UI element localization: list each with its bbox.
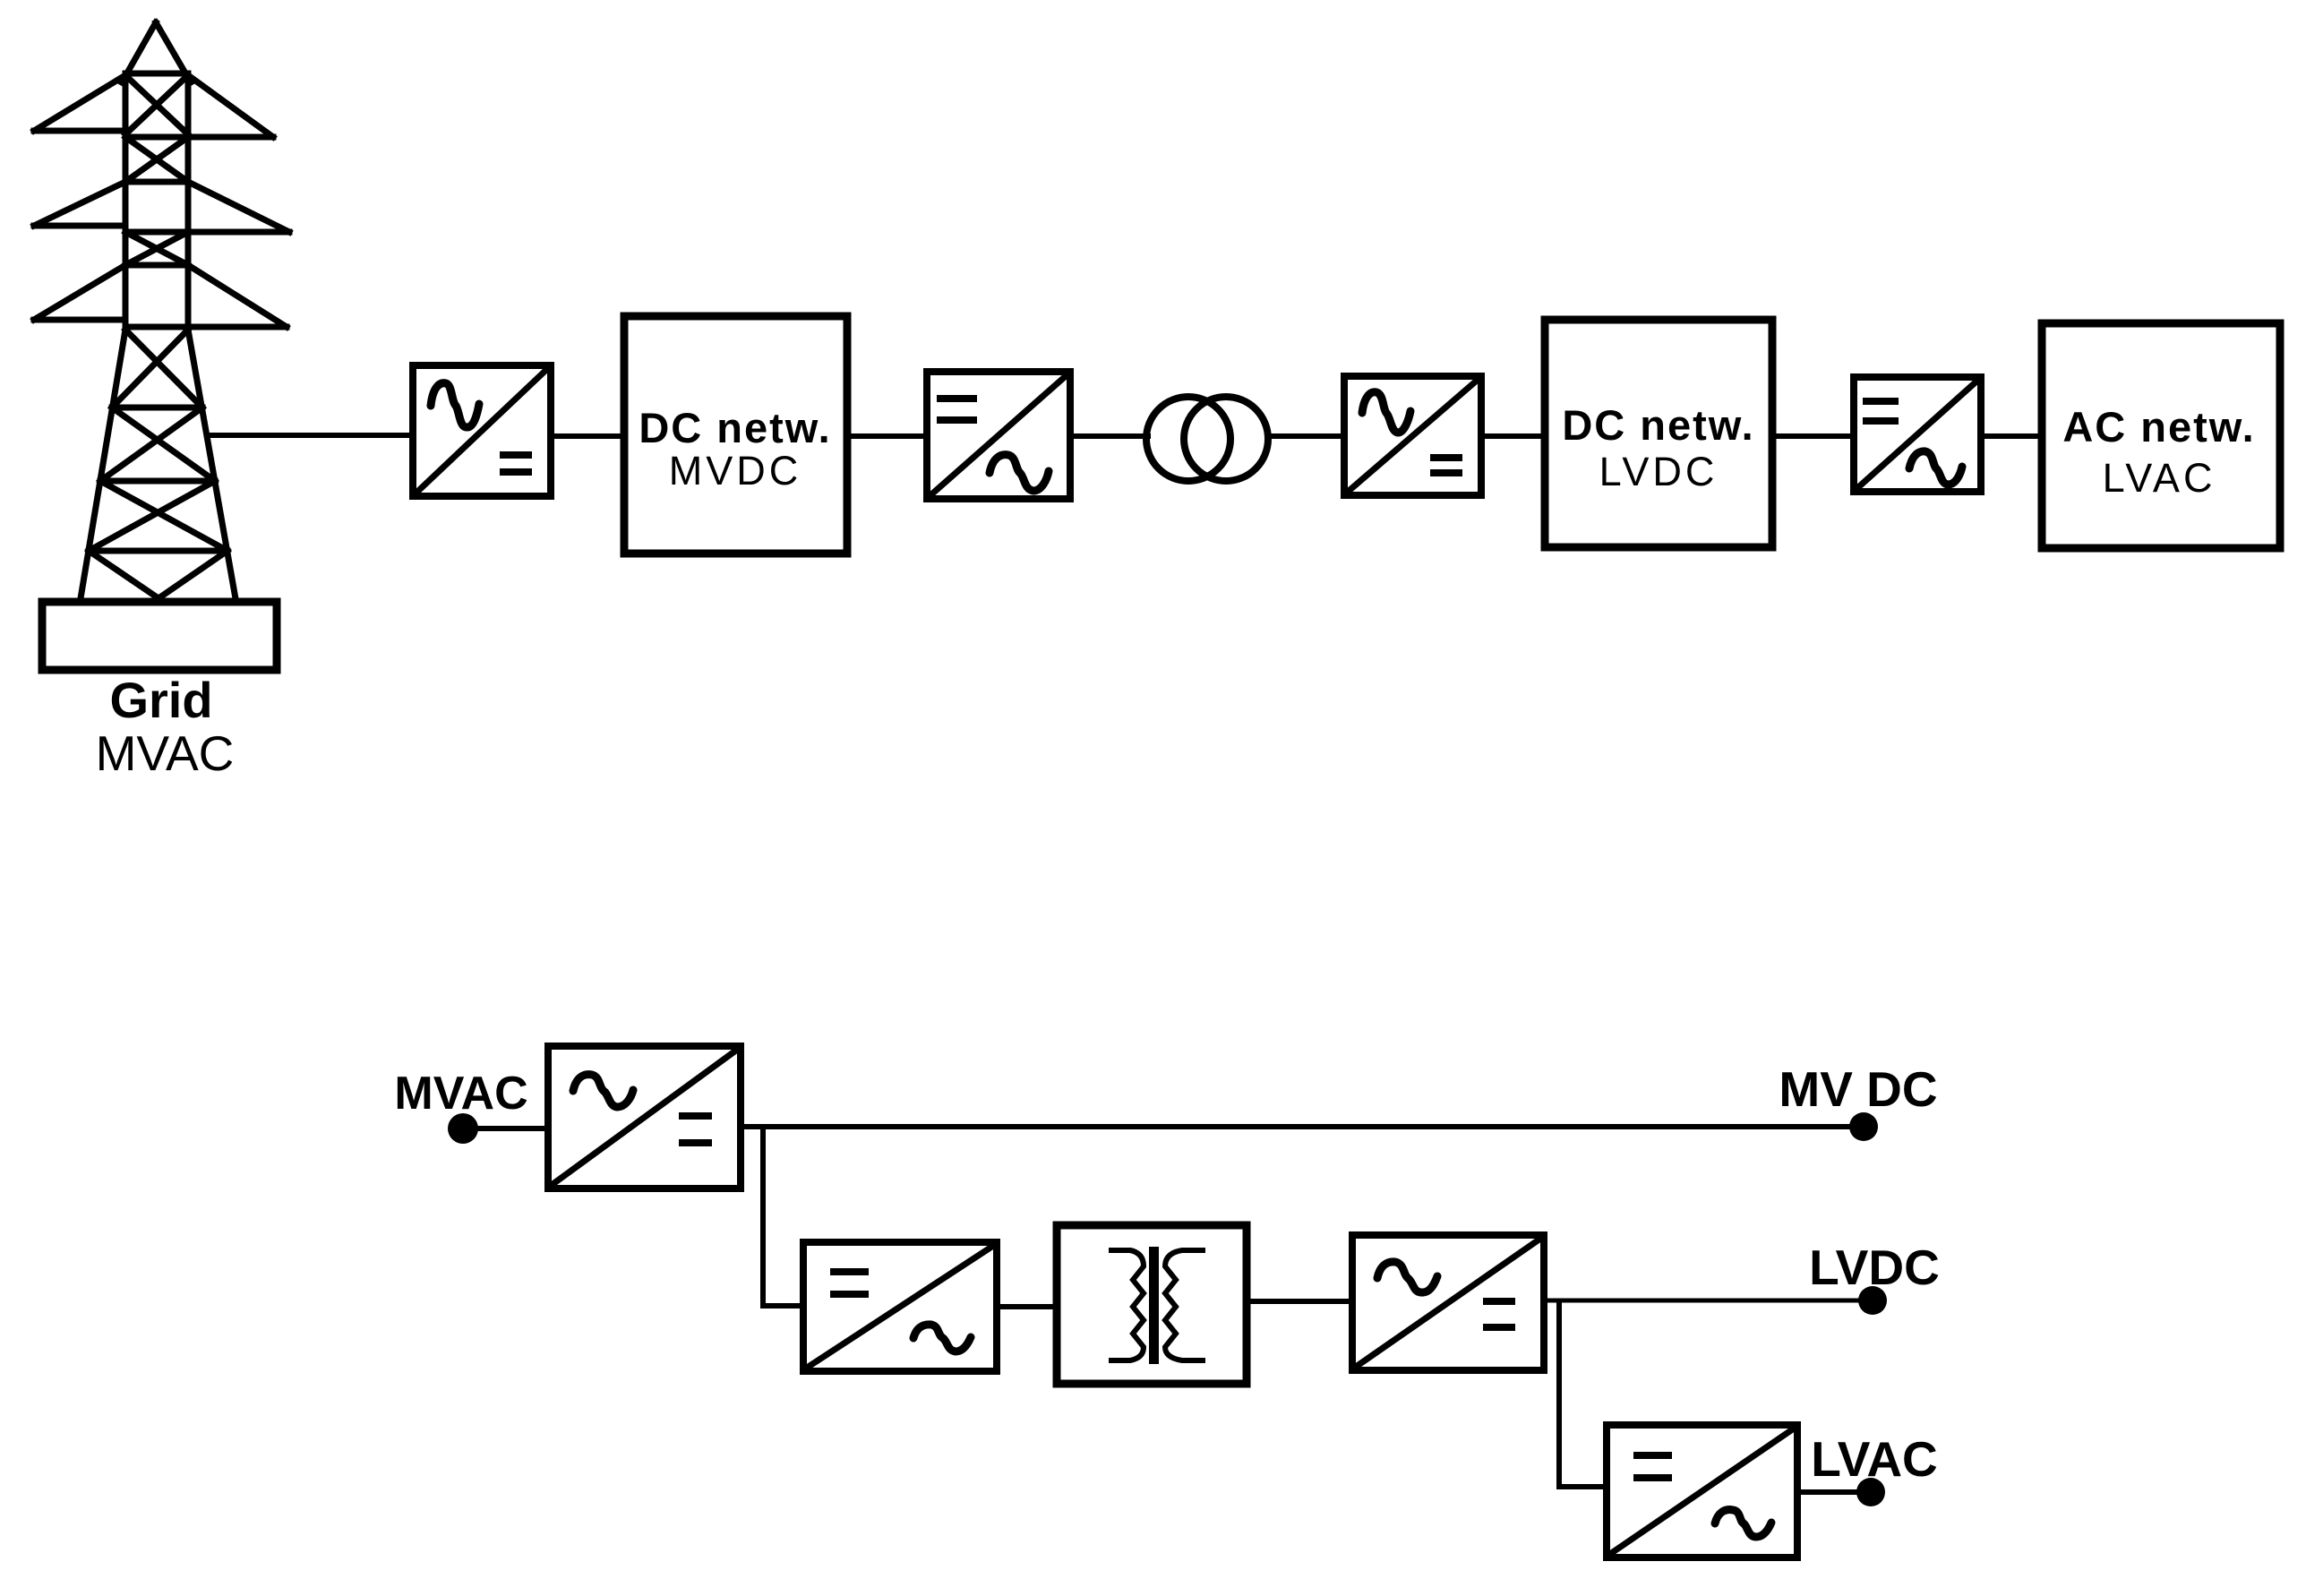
transformer T2	[1057, 1225, 1247, 1384]
svg-text:Grid: Grid	[109, 672, 212, 728]
wire U8 to LVAC node	[1797, 1489, 1871, 1495]
svg-text:LVDC: LVDC	[1599, 449, 1719, 494]
wire U2 to T1	[1070, 433, 1151, 439]
wire MVAC to U5	[463, 1126, 548, 1131]
svg-text:AC netw.: AC netw.	[2062, 403, 2255, 450]
block AC netw. LVAC	[2042, 323, 2280, 548]
wire U4 to LVAC block	[1981, 433, 2039, 439]
converter U2 DC/AC	[927, 372, 1070, 499]
wire LVDC to U4	[1772, 433, 1854, 439]
wire U6 to T2	[997, 1304, 1057, 1309]
svg-text:MVAC: MVAC	[394, 1068, 527, 1120]
svg-text:LVAC: LVAC	[2103, 455, 2216, 501]
svg-text:LVDC: LVDC	[1809, 1240, 1940, 1295]
svg-text:MVAC: MVAC	[96, 725, 235, 781]
wire MVDC to U2	[847, 433, 927, 439]
svg-text:DC netw.: DC netw.	[639, 404, 831, 451]
converter U7 AC/DC	[1352, 1235, 1544, 1370]
svg-text:DC netw.: DC netw.	[1562, 401, 1754, 449]
converter U1 AC/DC	[413, 365, 551, 496]
node MVAC	[448, 1113, 478, 1144]
wire U1 to MVDC block	[551, 433, 624, 439]
node MV DC	[1849, 1112, 1878, 1141]
wire branch U7 to U8	[1556, 1300, 1562, 1487]
converter U4 DC/AC	[1854, 377, 1981, 492]
converter U8 DC/AC	[1607, 1425, 1797, 1557]
node LVDC	[1858, 1286, 1887, 1315]
converter U6 DC/AC	[803, 1242, 997, 1371]
node LVAC	[1856, 1478, 1885, 1506]
converter U5 AC/DC	[548, 1046, 741, 1188]
block DC netw. MVDC	[624, 316, 847, 553]
block DC netw. LVDC	[1545, 320, 1772, 547]
wire U5 to MV DC node	[741, 1124, 1864, 1129]
wire tower to U1	[204, 433, 413, 438]
wire T1 to U3	[1266, 433, 1344, 439]
converter U3 AC/DC	[1344, 376, 1481, 495]
wire U3 to LVDC block	[1481, 433, 1545, 439]
wire branch U5 to U6	[760, 1127, 766, 1306]
wire T2 to U7	[1247, 1299, 1352, 1304]
svg-text:LVAC: LVAC	[1811, 1431, 1938, 1487]
transformer T1 (two circles)	[1146, 397, 1230, 481]
grid tower	[34, 22, 289, 604]
tower base	[42, 602, 277, 670]
svg-text:MV DC: MV DC	[1779, 1061, 1937, 1117]
svg-text:MVDC: MVDC	[669, 448, 802, 493]
wire U7 to LVDC node	[1544, 1299, 1873, 1303]
